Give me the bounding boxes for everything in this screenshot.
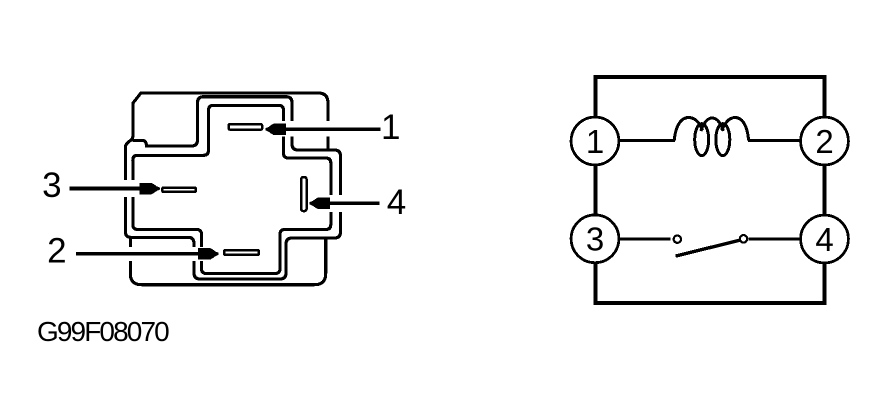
svg-text:4: 4 bbox=[387, 183, 406, 222]
svg-text:3: 3 bbox=[586, 221, 604, 258]
svg-text:3: 3 bbox=[42, 166, 61, 205]
svg-text:2: 2 bbox=[815, 123, 833, 160]
svg-text:G99F08070: G99F08070 bbox=[37, 316, 169, 347]
svg-text:1: 1 bbox=[586, 123, 604, 160]
svg-text:2: 2 bbox=[47, 232, 66, 271]
svg-text:1: 1 bbox=[381, 108, 400, 147]
svg-text:4: 4 bbox=[815, 221, 833, 258]
